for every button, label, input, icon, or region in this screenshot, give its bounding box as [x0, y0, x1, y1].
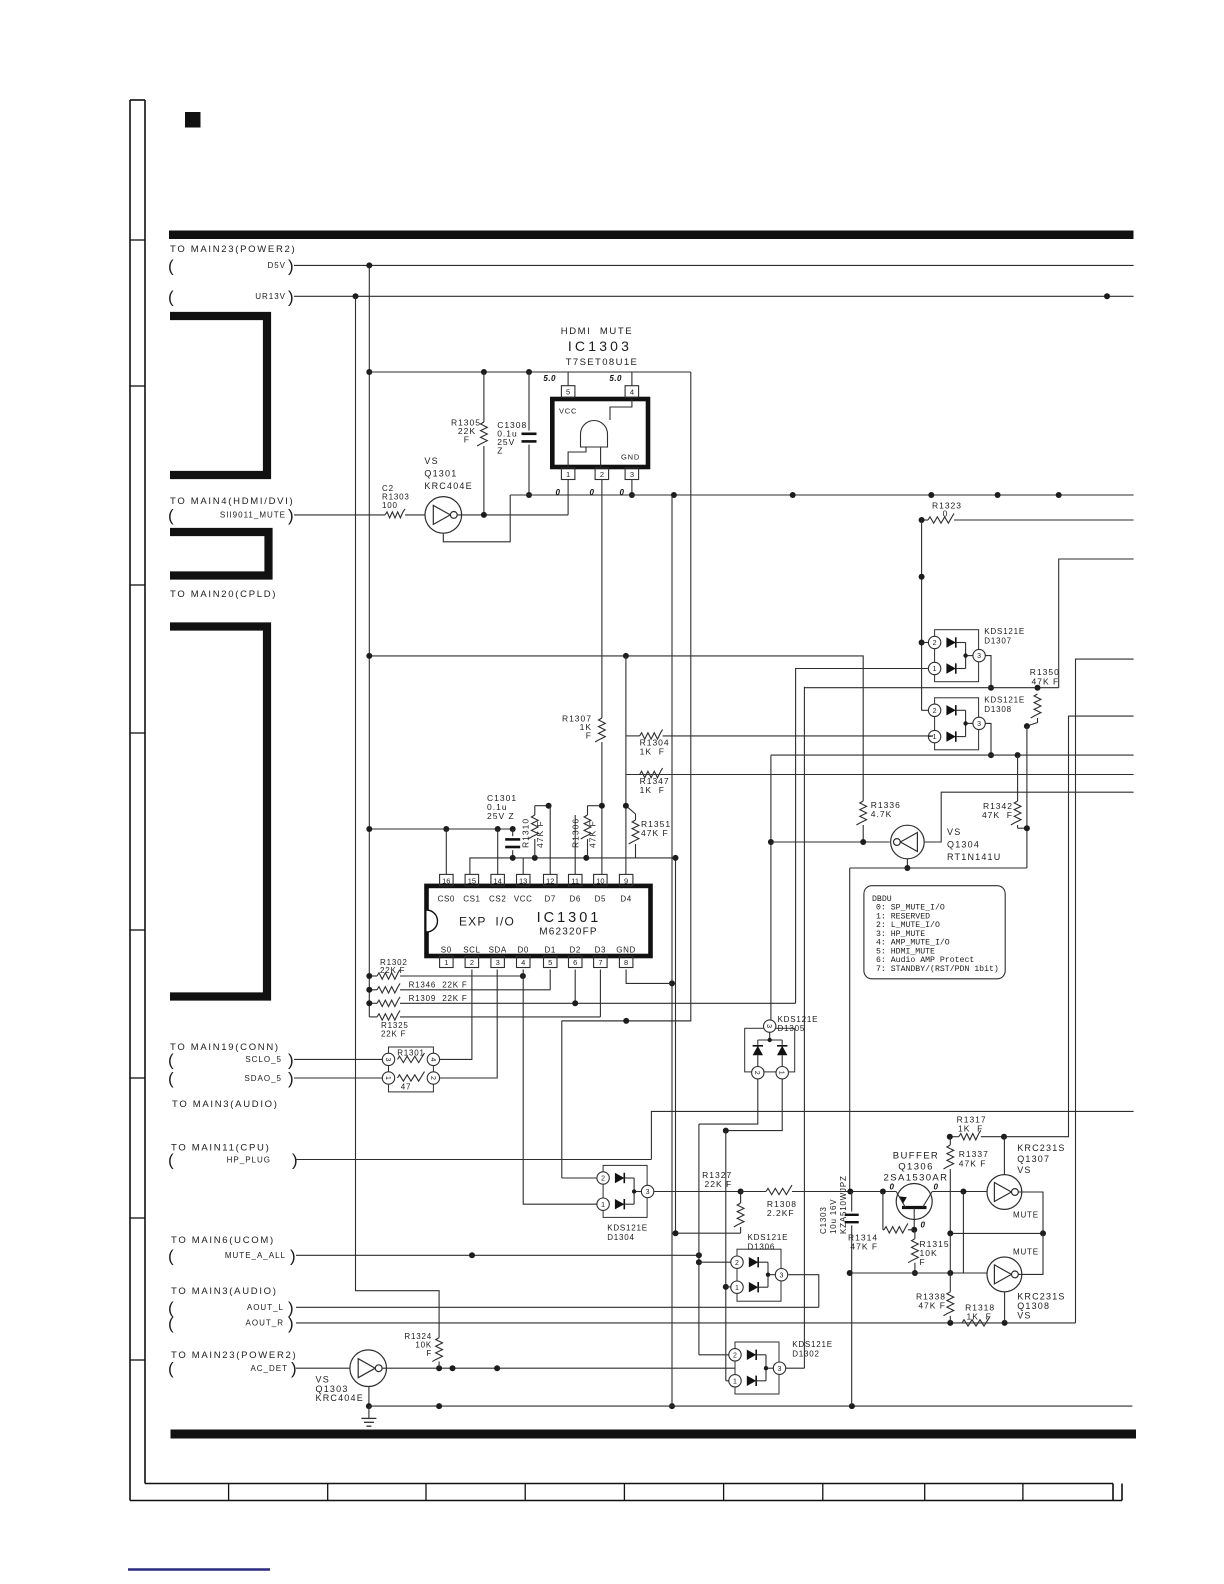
wire D1302 pin3 route [786, 1367, 805, 1369]
svg-text:0: 0 [934, 1183, 939, 1192]
svg-text:KDS121E: KDS121E [778, 1015, 819, 1024]
wire Q1304 out line [771, 841, 890, 843]
label D5 [595, 895, 606, 904]
label CS1 [463, 895, 480, 904]
connector pin AOUT_L [168, 1298, 294, 1317]
wire exit y659 rail [1076, 659, 1134, 1323]
resistor R1336 [856, 801, 866, 842]
label 0 pin3 [620, 488, 625, 497]
svg-text:3: 3 [765, 1024, 772, 1028]
wire Q1301 out [457, 514, 568, 516]
label R1309 [409, 994, 468, 1003]
connector pin AOUT_R [168, 1314, 294, 1333]
svg-text:VCC: VCC [514, 895, 533, 904]
label 0 q1306 em [921, 1221, 926, 1230]
svg-text:D4: D4 [620, 895, 631, 904]
wire Q1304 emitter [906, 859, 908, 868]
label SDA [489, 946, 507, 955]
connector group label TO MAIN3(AUDIO) [172, 1099, 279, 1110]
wire SCLO_5 [294, 1058, 382, 1060]
svg-text:(: ( [168, 1314, 174, 1333]
junction dot y655 left [366, 653, 372, 659]
label 0 q1306 right [934, 1183, 939, 1192]
svg-text:D1306: D1306 [748, 1243, 776, 1252]
svg-text:KRC231S: KRC231S [1017, 1292, 1065, 1302]
label CS2 [489, 895, 506, 904]
label R1305 [451, 418, 481, 445]
svg-text:8: 8 [624, 958, 628, 967]
wire Q1303 out [382, 1367, 735, 1369]
connector pin SDAO_5 [168, 1069, 294, 1088]
svg-text:TO MAIN20(CPLD): TO MAIN20(CPLD) [170, 589, 277, 600]
svg-text:1: 1 [601, 1202, 605, 1209]
wire pin5 drop [567, 372, 569, 386]
svg-text:TO MAIN3(AUDIO): TO MAIN3(AUDIO) [172, 1099, 279, 1110]
svg-text:2: 2 [753, 1071, 760, 1075]
svg-text:R1346 22K F: R1346 22K F [409, 980, 468, 989]
svg-text:VS: VS [424, 456, 438, 466]
svg-text:2: 2 [733, 1352, 737, 1359]
junction dot r1327 gnd [673, 1230, 679, 1236]
label R1315 [920, 1239, 950, 1267]
junction dot y1022 [623, 1018, 629, 1024]
pin 4 IC1303 [625, 386, 639, 398]
wire D1307 pin2 [922, 642, 929, 644]
svg-text:12: 12 [546, 876, 554, 885]
svg-text:3: 3 [778, 1366, 782, 1373]
svg-text:2: 2 [600, 470, 604, 479]
label MUTE q1307 [1013, 1211, 1039, 1220]
junction dot R1327 top [738, 1189, 744, 1195]
junction dot R1323 left [919, 517, 925, 523]
junction dot y829 c1301 [510, 826, 516, 832]
svg-text:47K F: 47K F [918, 1301, 946, 1311]
label C2 R1303 100 [382, 484, 410, 510]
pin 13 IC1301 [517, 874, 531, 886]
svg-text:0: 0 [890, 1183, 895, 1192]
svg-text:KZA510WJPZ: KZA510WJPZ [839, 1175, 848, 1234]
resistor R1310 [528, 806, 549, 858]
label R1324 [404, 1332, 432, 1358]
junction dot r1317 left [947, 1134, 953, 1140]
junction dot C1303 top [847, 1189, 853, 1195]
wire pin12 D7 up [549, 806, 551, 875]
svg-text:2: 2 [735, 1260, 739, 1267]
svg-text:CS0: CS0 [438, 895, 455, 904]
svg-text:VS: VS [947, 827, 961, 837]
svg-text:): ) [288, 287, 294, 306]
wire pin13 up [522, 858, 524, 875]
svg-text:T7SET08U1E: T7SET08U1E [566, 357, 639, 368]
label D3 [595, 946, 606, 955]
svg-text:): ) [288, 506, 294, 525]
resistor network R1301 box [389, 1047, 434, 1092]
svg-text:47K F: 47K F [982, 810, 1013, 820]
svg-text:47K F: 47K F [1032, 677, 1060, 687]
svg-text:D1: D1 [544, 946, 555, 955]
resistor R1303 [385, 509, 405, 518]
svg-text:): ) [290, 1246, 296, 1265]
top thick bus bar [169, 231, 1134, 240]
wire KDS rail [921, 520, 923, 710]
label 0 q1306 left [890, 1183, 895, 1192]
resistor R1309 [369, 997, 795, 1007]
svg-text:HDMI MUTE: HDMI MUTE [561, 326, 633, 337]
svg-text:SDAO_5: SDAO_5 [244, 1074, 282, 1083]
svg-text:100: 100 [382, 501, 398, 510]
pin 15 IC1301 [465, 874, 479, 886]
wire D1305 c3 rail [770, 755, 772, 1020]
svg-text:(: ( [168, 1069, 174, 1088]
svg-text:2: 2 [470, 958, 474, 967]
wire D1302 pin1 [726, 1380, 729, 1382]
svg-text:0: 0 [620, 488, 625, 497]
svg-text:D5: D5 [595, 895, 606, 904]
pin 1 IC1303 [561, 468, 575, 480]
svg-text:(: ( [168, 506, 174, 525]
wire 5V rail vertical [368, 265, 370, 1017]
pin 1 IC1301 [440, 956, 454, 968]
label R1346 [409, 980, 468, 989]
junction dot R1305 bottom [481, 512, 487, 518]
resistor R1306 [581, 806, 602, 858]
diode pack D1302 [729, 1340, 833, 1394]
svg-text:6: Audio AMP Protect: 6: Audio AMP Protect [876, 955, 974, 965]
label R1318 [965, 1303, 995, 1322]
pin 1 R1301 [382, 1072, 394, 1084]
wire exit y716 rail [1069, 716, 1134, 1137]
svg-text:): ) [291, 1359, 297, 1378]
connector pin SII9011_MUTE [168, 506, 294, 525]
svg-text:TO MAIN23(POWER2): TO MAIN23(POWER2) [170, 244, 296, 255]
svg-text:R1337: R1337 [959, 1149, 989, 1159]
svg-text:VCC: VCC [559, 407, 577, 416]
svg-text:(: ( [168, 1151, 174, 1170]
svg-text:IC1303: IC1303 [568, 338, 632, 354]
connector pin HP_PLUG [168, 1151, 298, 1170]
svg-text:TO MAIN23(POWER2): TO MAIN23(POWER2) [171, 1350, 297, 1361]
label R1350 [1030, 667, 1060, 687]
page border left ruler strip [130, 100, 145, 1501]
svg-text:3: 3 [646, 1189, 650, 1196]
label R1306 rotated [571, 818, 598, 848]
junction dot 0rail b [790, 492, 796, 498]
pin 3 R1301 [382, 1053, 394, 1065]
resistor R1324 [432, 1338, 442, 1369]
wire IC1303 5V top line [369, 371, 691, 373]
junction dot UR13V right [1104, 293, 1110, 299]
wire q1307 collector [1003, 1137, 1005, 1175]
wire 5V drop to HP net [562, 372, 691, 1021]
label D2 [569, 946, 580, 955]
label R1342 [982, 801, 1013, 820]
svg-text:(: ( [168, 287, 174, 306]
svg-text:1: 1 [444, 958, 448, 967]
svg-text:14: 14 [494, 876, 502, 885]
gate symbol inside IC1303 [568, 399, 632, 468]
wire D1304 pin3 line [654, 1191, 741, 1193]
svg-text:2: 2 [933, 708, 937, 715]
junction dot R1336 bottom [860, 839, 866, 845]
node GND bottom rail [369, 1405, 1133, 1407]
junction dot pin3 gnd [629, 492, 635, 498]
svg-text:0: 0 [921, 1221, 926, 1230]
junction dot y829 a [366, 826, 372, 832]
svg-text:D1307: D1307 [984, 637, 1012, 646]
svg-text:5.0: 5.0 [543, 374, 556, 383]
connector group label TO MAIN23(POWER2) [171, 1350, 297, 1361]
svg-text:22K F: 22K F [381, 1030, 406, 1039]
svg-text:6: 6 [573, 958, 577, 967]
junction dot mute left [947, 1230, 953, 1236]
diode pack D1305 [745, 1015, 819, 1079]
pin 9 IC1301 [619, 874, 633, 886]
svg-text:KRC404E: KRC404E [316, 1393, 364, 1403]
label R1325 [381, 1021, 409, 1039]
svg-text:5: 5 [548, 958, 552, 967]
junction dot y858 c1301 [510, 855, 516, 861]
resistor R1318 [962, 1317, 990, 1327]
pin 14 IC1301 [491, 874, 505, 886]
svg-text:Q1304: Q1304 [947, 840, 980, 850]
junction dot 0rail e [1056, 492, 1062, 498]
junction dot D0 r1302 [520, 973, 526, 979]
svg-text:1: 1 [778, 1071, 785, 1075]
label C1308 [497, 420, 527, 456]
wire HP exit [651, 1111, 1133, 1159]
junction dot y829 pin16 [443, 826, 449, 832]
svg-text:UR13V: UR13V [255, 292, 286, 301]
svg-text:7: STANDBY/(RST/PDN 1bit): 7: STANDBY/(RST/PDN 1bit) [876, 964, 999, 974]
wire AOUT_L [296, 1306, 819, 1308]
label R1310 rotated [521, 818, 546, 848]
svg-text:1: 1 [933, 666, 937, 673]
svg-text:15: 15 [468, 876, 476, 885]
wire pin1 to mute line [567, 480, 569, 515]
junction dot D1307 pin3 [988, 685, 994, 691]
svg-text:VS: VS [1017, 1310, 1031, 1320]
pin 10 IC1301 [594, 874, 608, 886]
svg-text:R1301: R1301 [397, 1049, 425, 1058]
wire UR13V rail vertical [356, 296, 440, 1337]
junction dot 5V r1309 [366, 1000, 372, 1006]
connector block MAIN20 bracket [170, 627, 267, 997]
resistor R1317 [959, 1130, 1069, 1140]
svg-text:3: 3 [630, 470, 634, 479]
wire D1302 pin2 [699, 1354, 729, 1356]
label SCL [463, 946, 480, 955]
junction dot mute b [696, 1252, 702, 1258]
svg-text:TO MAIN3(AUDIO): TO MAIN3(AUDIO) [171, 1286, 278, 1297]
wire mute rail down [698, 1124, 700, 1355]
svg-text:13: 13 [519, 876, 527, 885]
node net y1272 [850, 1272, 987, 1274]
svg-text:): ) [288, 1050, 294, 1069]
junction dot C1308 bottom [526, 492, 532, 498]
wire D1302 c3 rail [803, 687, 805, 1368]
junction dot R1310 top [546, 803, 552, 809]
wire q1306 to q1307 [932, 1191, 987, 1193]
junction dot R1351 top [623, 803, 629, 809]
pin 6 IC1301 [569, 956, 583, 968]
wire HP_PLUG [296, 1159, 651, 1161]
wire Q1301 emitter elbow [443, 495, 510, 542]
junction dot 0rail a [671, 492, 677, 498]
svg-text:5: 5 [566, 388, 570, 397]
junction dot mute c [696, 1259, 702, 1265]
svg-text:KDS121E: KDS121E [984, 627, 1025, 636]
svg-text:D1305: D1305 [778, 1024, 806, 1033]
svg-text:AOUT_R: AOUT_R [246, 1319, 284, 1328]
wire R1350 bottom rail [1026, 726, 1028, 868]
junction dot D2 [572, 1000, 578, 1006]
svg-text:2: L_MUTE_I/O: 2: L_MUTE_I/O [876, 920, 940, 930]
wire pin4 drop [631, 372, 633, 386]
svg-text:1K F: 1K F [967, 1312, 992, 1322]
label R1323 [932, 501, 962, 519]
IC IC1301 body [427, 886, 651, 956]
svg-text:RT1N141U: RT1N141U [947, 852, 1001, 862]
pin 4 IC1301 [517, 956, 531, 968]
label IC1303 [568, 338, 632, 354]
connector group label TO MAIN4(HDMI/DVI) [170, 496, 294, 507]
label IC1301 name [537, 910, 602, 926]
junction dot c1303 bot net [847, 1270, 853, 1276]
connector pin UR13V [168, 287, 294, 306]
page border bottom ruler strip [130, 1484, 1122, 1501]
label R1314 [848, 1233, 878, 1252]
node 5V line y829 [369, 828, 512, 830]
junction dot r1317 right [1001, 1134, 1007, 1140]
svg-text:1K F: 1K F [958, 1124, 983, 1134]
svg-text:2.2KF: 2.2KF [767, 1208, 795, 1218]
resistor R1338 [943, 1233, 953, 1323]
node net y687 [804, 687, 1058, 689]
resistor R1351 [626, 806, 639, 858]
svg-text:2: 2 [601, 1176, 605, 1183]
resistor R1350 [1024, 694, 1041, 729]
label C1303 rotated [819, 1175, 848, 1234]
svg-text:S0: S0 [441, 946, 452, 955]
label R1351 [641, 819, 671, 838]
resistor R1304 [626, 730, 933, 740]
svg-text:GND: GND [616, 946, 636, 955]
pin 2 IC1301 [465, 956, 479, 968]
svg-text:D7: D7 [544, 895, 555, 904]
node net y774 R1347 line [626, 774, 1134, 776]
svg-text:3: 3 [496, 958, 500, 967]
wire D1307 pin1 [796, 669, 929, 1004]
wire GND pin8 drop [626, 970, 672, 984]
capacitor C1308 [522, 372, 537, 495]
svg-text:D0: D0 [517, 946, 528, 955]
svg-text:): ) [288, 1069, 294, 1088]
svg-text:Q1306: Q1306 [898, 1162, 934, 1173]
junction dot D5V rail [366, 262, 372, 268]
svg-text:F: F [920, 1257, 926, 1267]
junction dot y655 D4 [623, 653, 629, 659]
svg-text:F: F [464, 435, 470, 445]
wire D2 drop [574, 970, 576, 1004]
wire SII9011_MUTE [294, 514, 385, 516]
svg-text:D6: D6 [569, 895, 580, 904]
diode pack D1307 [928, 627, 1025, 682]
wire D3 drop [599, 970, 601, 1017]
svg-text:2: 2 [933, 640, 937, 647]
wire hp drop x561 [561, 1021, 563, 1178]
svg-text:AC_DET: AC_DET [250, 1364, 288, 1373]
bottom thick bus bar [171, 1430, 1137, 1439]
label 47 [401, 1083, 412, 1092]
wire SCL drop [440, 970, 472, 1060]
label R1347 [640, 776, 670, 795]
svg-text:3: 3 [977, 653, 981, 660]
pin 5 IC1303 [561, 386, 575, 398]
svg-text:D5V: D5V [267, 261, 286, 270]
svg-text:2: 2 [429, 1076, 436, 1080]
ground symbol [361, 1406, 376, 1426]
svg-text:VS: VS [1017, 1165, 1031, 1175]
node VCC line y858 [470, 858, 676, 875]
svg-text:MUTE: MUTE [1013, 1248, 1039, 1257]
connector pin MUTE_A_ALL [168, 1246, 296, 1265]
label Q1301 [424, 456, 472, 491]
junction dot Q1304 emitter [904, 865, 910, 871]
svg-text:1: 1 [735, 1285, 739, 1292]
svg-text:Q1307: Q1307 [1017, 1154, 1050, 1164]
svg-text:SCL: SCL [463, 946, 480, 955]
black index square [185, 112, 201, 128]
svg-text:1: 1 [733, 1378, 737, 1385]
svg-text:47K F: 47K F [959, 1159, 987, 1169]
svg-text:4: 4 [630, 388, 634, 397]
svg-text:MUTE_A_ALL: MUTE_A_ALL [225, 1251, 286, 1260]
svg-text:DBDU: DBDU [872, 895, 892, 904]
junction dot q1303 gnd [366, 1403, 372, 1409]
junction dot R1305 top [481, 369, 487, 375]
op-amp gate IC1303 body [552, 399, 648, 467]
junction dot y858 r1310 [532, 855, 538, 861]
wire R1317 line [950, 1136, 959, 1138]
resistor R1308 [741, 1185, 897, 1195]
wire SDAO_5 [294, 1077, 382, 1079]
diode pack D1308 [928, 696, 1025, 750]
svg-text:47K F: 47K F [535, 820, 545, 848]
junction dot gnd rail top [671, 494, 673, 496]
junction dot y858 r1306 [583, 855, 589, 861]
label R1307 [562, 714, 592, 741]
pin 4 R1301 [427, 1053, 439, 1065]
wire R1327 bottom [676, 1232, 741, 1234]
svg-text:3: 3 [977, 721, 981, 728]
junction dot kds rail mid [919, 574, 925, 580]
svg-text:1K F: 1K F [640, 785, 665, 795]
svg-text:0: 0 [556, 488, 561, 497]
junction dot pins1 d1306 [723, 1284, 729, 1290]
node GND rail long [671, 495, 673, 1406]
wire pin16 up [445, 829, 447, 874]
svg-text:R1309 22K F: R1309 22K F [409, 994, 468, 1003]
svg-text:22K F: 22K F [705, 1179, 733, 1189]
svg-text:R1350: R1350 [1030, 667, 1060, 677]
node 0V rail [510, 494, 1133, 496]
junction dot q1307 in [960, 1189, 966, 1195]
connector group label TO MAIN23(POWER2) [170, 244, 296, 255]
wire D1306 pin2 [699, 1261, 731, 1263]
wire D4 vertical [625, 656, 627, 875]
label R1336 [871, 800, 901, 819]
svg-text:10u 16V: 10u 16V [829, 1199, 838, 1234]
